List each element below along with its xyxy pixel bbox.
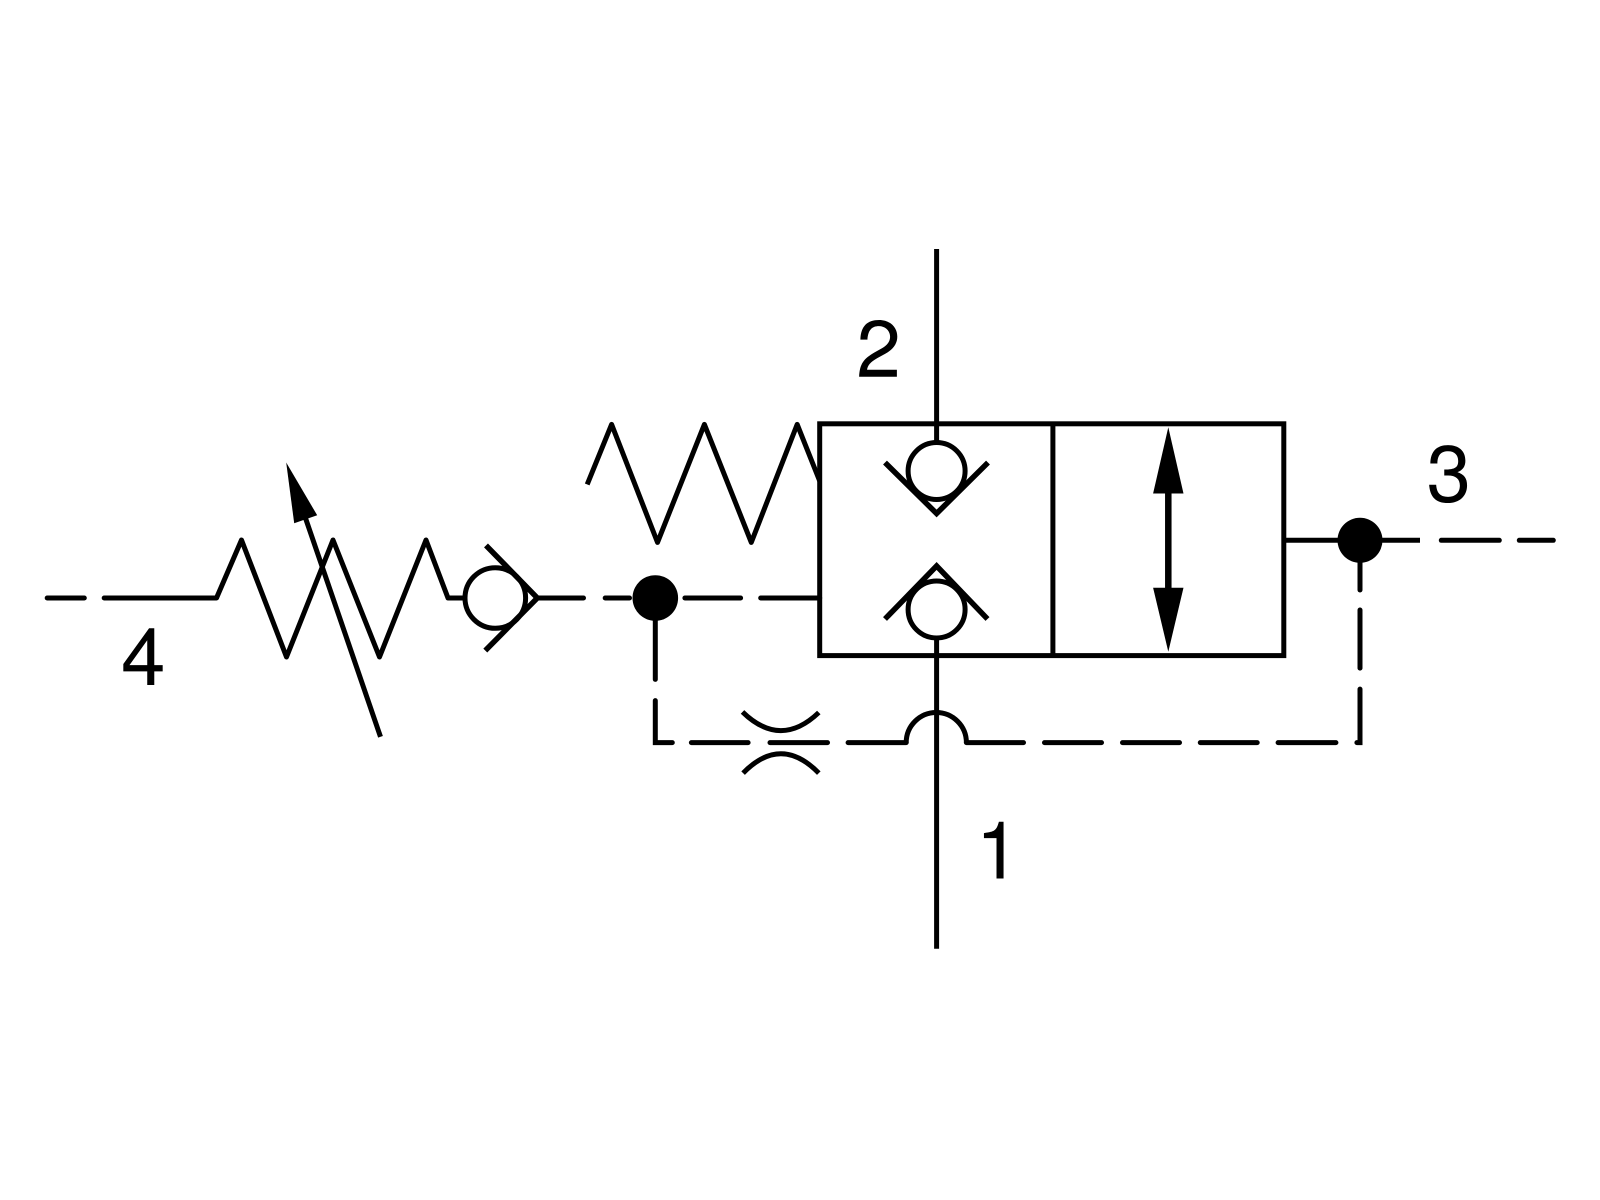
port 1 line	[934, 638, 939, 949]
check valve V1 (circle)	[465, 568, 526, 629]
port 3 dashed line	[1441, 538, 1553, 543]
right pilot dashed line down from junction B	[1357, 563, 1360, 743]
lower check valve (circle)	[908, 581, 965, 638]
wire: junction A to valve body (dashed)	[685, 596, 820, 601]
port 3 line	[1284, 538, 1420, 543]
label 1	[984, 822, 1004, 879]
check valve V1 seat chevron	[485, 545, 537, 650]
valve body	[820, 424, 1284, 656]
valve spring (pilot stage spring)	[587, 424, 820, 542]
wire crossover hump over port 1 line	[906, 712, 966, 742]
adjustment arrow through spring	[286, 463, 380, 737]
junction dot A	[633, 575, 679, 621]
pilot line down from junction A (dashed)	[655, 620, 672, 743]
label 3	[1429, 445, 1467, 503]
bottom pilot dashed line (right part)	[966, 740, 1336, 745]
label 2	[859, 320, 897, 377]
lower check valve seat (A)	[885, 566, 988, 619]
valve body divider	[1050, 424, 1055, 656]
junction dot B	[1338, 518, 1383, 563]
label 4	[123, 628, 162, 685]
upper check valve seat (V)	[885, 463, 988, 514]
wire: check valve to junction A (dashed)	[537, 596, 629, 601]
orifice (restriction)	[743, 712, 819, 773]
adjustable spring (relief setting spring)	[217, 540, 465, 657]
port 4 dashed line	[47, 596, 216, 601]
bottom pilot dashed line	[691, 740, 906, 745]
port 2 line	[934, 249, 939, 443]
upper check valve (circle)	[908, 443, 965, 500]
spool travel double arrow	[1153, 427, 1183, 651]
